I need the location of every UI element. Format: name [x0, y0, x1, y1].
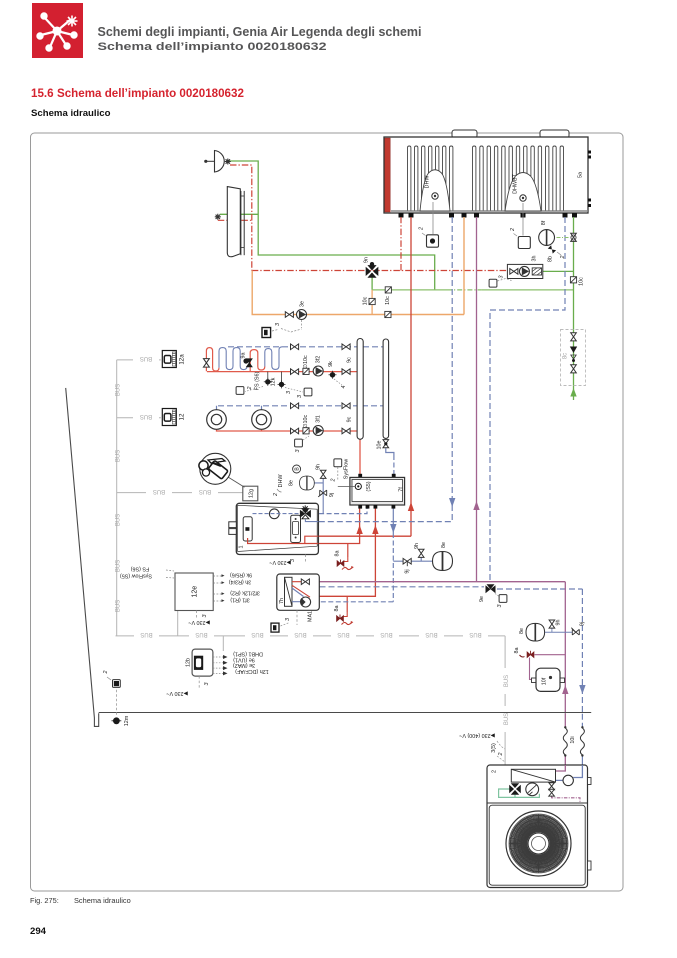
svg-text:BUS: BUS: [251, 631, 263, 637]
svg-text:SysFlow (S5): SysFlow (S5): [120, 573, 152, 579]
thermostat 12: [162, 409, 185, 426]
svg-text:Schema dell’impianto 002018063: Schema dell’impianto 0020180632: [98, 41, 327, 53]
diagram frame: [31, 133, 624, 891]
wire red dash-dot shower: [218, 165, 252, 271]
tank sensor cable DHWBT: [510, 203, 530, 249]
svg-text:BUS: BUS: [115, 450, 121, 462]
wire red 7f to 7h: [320, 506, 376, 596]
wall diagonal: [66, 388, 99, 727]
valve + pump 3e on orange line: [262, 301, 307, 338]
svg-text:9j: 9j: [329, 493, 335, 497]
svg-text:3h: 3h: [532, 256, 538, 262]
row2 valve 9c: [342, 416, 353, 433]
svg-text:3: 3: [275, 323, 281, 326]
wire purple hp hose lower: [564, 714, 566, 766]
svg-text:BUS: BUS: [504, 713, 510, 725]
floor line: [99, 712, 592, 714]
BUS drop to heat pump: [504, 636, 506, 765]
SysFlow callout: [338, 485, 355, 487]
wire red row1: [207, 371, 357, 373]
svg-text:12h (DCF/AF): 12h (DCF/AF): [235, 668, 269, 674]
valve 9j low: [571, 622, 585, 635]
controller 12g: [243, 486, 258, 501]
svg-text:BUS: BUS: [140, 355, 152, 361]
expansion vessel 8e low: [519, 620, 572, 642]
svg-text:9k (R5/6): 9k (R5/6): [230, 571, 252, 577]
svg-text:12k: 12k: [271, 377, 277, 386]
svg-text:7f: 7f: [399, 487, 405, 492]
svg-text:2: 2: [103, 671, 109, 675]
svg-text:BUS: BUS: [294, 631, 306, 637]
svg-text:3: 3: [499, 276, 505, 279]
wire green dash-dot: [447, 289, 481, 291]
svg-text:8b: 8b: [548, 256, 554, 262]
svg-text:9j: 9j: [580, 622, 586, 626]
svg-text:▶230 V~: ▶230 V~: [166, 690, 187, 696]
svg-text:12e: 12e: [192, 586, 199, 598]
wire blue capsule2 to 7f: [386, 448, 394, 455]
boiler internal dashed return: [253, 513, 300, 515]
controller 12b: [166, 649, 268, 696]
wire green drain outlet: [573, 386, 575, 401]
tank coil DHW: [408, 146, 453, 211]
svg-text:Fig. 275:: Fig. 275:: [30, 896, 59, 905]
12e callout labels: [120, 565, 260, 625]
svg-text:9k: 9k: [328, 361, 334, 367]
wire blue dashed 7h to 9e: [320, 586, 485, 588]
wire blue dashed row2: [217, 406, 384, 410]
svg-text:294: 294: [30, 926, 47, 937]
svg-text:BUS: BUS: [115, 600, 121, 612]
boiler unit 1: [229, 503, 319, 565]
svg-text:3: 3: [286, 391, 292, 394]
drain 8a lower: [334, 606, 353, 625]
svg-text:4: 4: [341, 386, 347, 389]
valve on green riser + check valve 8b: [548, 233, 577, 262]
hydraulic separator capsule 2: [383, 339, 389, 438]
filter group 8c dashed box: [561, 330, 586, 386]
svg-text:8e: 8e: [441, 542, 447, 548]
strainer 10c on green riser: [570, 277, 584, 286]
svg-text:BUS: BUS: [115, 384, 121, 396]
hp blue inlet to pump: [556, 765, 583, 780]
wire blue hp hose lower: [581, 714, 583, 728]
wire red dash-dot main: [252, 270, 509, 272]
row2 callout: [295, 436, 309, 453]
plate heat exchanger: [511, 769, 555, 782]
svg-text:▶230 V~: ▶230 V~: [269, 559, 290, 565]
strainer 10c on green feed: [385, 287, 391, 305]
tank sensor DHW: [432, 193, 438, 199]
strainer 10c on orange branch: [363, 296, 376, 305]
wire blue 7f stub4 down: [392, 506, 394, 533]
hp purple inlet: [556, 765, 566, 771]
svg-text:8a: 8a: [334, 606, 340, 612]
row1 valve: [291, 369, 299, 375]
svg-text:3: 3: [297, 395, 303, 398]
row1 strainer 10c: [303, 355, 309, 374]
wire blue dashed 9e to hp: [497, 589, 582, 714]
heating circuit 1 serpentine 9a: [203, 347, 282, 372]
BUS horizontal main: [116, 635, 506, 637]
BUS vertical trunk: [116, 360, 118, 636]
svg-text:BUS: BUS: [115, 560, 121, 572]
strainer on orange main: [385, 311, 391, 317]
wire red boiler loop to 7f: [248, 506, 360, 544]
shower fixture: [204, 151, 231, 173]
BUS branch 12: [117, 417, 161, 419]
sensor 12m outdoor: [103, 671, 130, 727]
svg-text:1: 1: [239, 546, 245, 549]
hp expansion valve: [549, 783, 555, 790]
row1 sensor 9k: [328, 361, 347, 389]
hp compressor: [526, 783, 539, 796]
svg-text:BUS: BUS: [337, 631, 349, 637]
sensor 9a: [241, 353, 253, 367]
svg-text:∅10c: ∅10c: [303, 415, 309, 429]
svg-text:Schema dell’impianto 002018063: Schema dell’impianto 0020180632: [57, 87, 244, 100]
magnifier detail circle: [199, 453, 245, 487]
svg-text:10e: 10e: [377, 441, 383, 450]
svg-text:2: 2: [273, 493, 279, 497]
expansion vessel 8f: [539, 220, 555, 245]
boiler fan star: [302, 505, 309, 512]
sensors FS S6 and 12k: [236, 372, 312, 398]
svg-text:10i: 10i: [570, 736, 576, 743]
svg-text:2: 2: [560, 256, 566, 260]
svg-text:BUS: BUS: [199, 488, 211, 494]
svg-text:2: 2: [419, 227, 425, 231]
pump group 3h: [489, 256, 543, 288]
svg-text:10f: 10f: [542, 677, 548, 685]
svg-text:3f1: 3f1: [316, 415, 322, 423]
svg-text:BUS: BUS: [195, 631, 207, 637]
svg-text:Schema idraulico: Schema idraulico: [74, 896, 131, 905]
svg-text:9j: 9j: [405, 569, 411, 573]
svg-text:9e (UV1): 9e (UV1): [233, 657, 255, 663]
svg-text:8f: 8f: [541, 220, 547, 225]
row1 return valves: [291, 344, 299, 350]
controller callout near 7h: [271, 618, 291, 632]
svg-text:3f1 (R1): 3f1 (R1): [230, 597, 250, 603]
BUS connector 12b: [222, 636, 224, 651]
svg-text:7h: 7h: [279, 598, 285, 604]
hose 10i flexible left: [563, 728, 567, 755]
mixer module 7h: [277, 574, 320, 625]
wire blue dashed boiler return from tank: [307, 217, 452, 522]
svg-text:3: 3: [285, 618, 291, 621]
svg-text:3h (R3/4): 3h (R3/4): [229, 578, 252, 584]
BUS branch 12g: [117, 492, 243, 494]
svg-text:8a: 8a: [335, 551, 341, 557]
svg-text:BUS: BUS: [469, 631, 481, 637]
thermostat 12a: [162, 351, 185, 368]
controller 12e: [175, 573, 213, 611]
wire red drain branch 8a: [347, 544, 349, 558]
svg-text:12b: 12b: [186, 658, 192, 667]
wire blue dashed boiler to 7f stub2: [297, 506, 367, 514]
wire purple tank drop: [476, 217, 478, 582]
svg-text:2: 2: [247, 387, 253, 391]
svg-text:10c: 10c: [363, 296, 369, 305]
svg-text:8c: 8c: [563, 353, 569, 359]
mixing valve 9n: [364, 257, 379, 278]
diverter valve 9e: [479, 584, 507, 607]
svg-text:BUS: BUS: [425, 631, 437, 637]
system sensor box 7f: [331, 459, 405, 509]
row2 pump 3f1: [313, 415, 323, 435]
hp 4-way valve: [509, 783, 521, 795]
wire red capsule1 to 7f: [359, 439, 361, 476]
svg-text:BUS: BUS: [380, 631, 392, 637]
hp teal pipes: [499, 789, 540, 797]
svg-text:DHWBT: DHWBT: [513, 173, 519, 193]
wire green shower supply: [228, 161, 435, 290]
wire green sink branch: [220, 213, 258, 215]
fill cluster 9j 9h 8e right: [403, 542, 452, 574]
hp pump: [563, 775, 573, 785]
svg-text:∅10c: ∅10c: [303, 355, 309, 369]
BUS connector 12e: [177, 611, 179, 636]
boiler supply cable: [305, 555, 307, 563]
sink fixture: [215, 187, 244, 257]
svg-text:BUS: BUS: [140, 631, 152, 637]
svg-text:9a: 9a: [241, 353, 247, 359]
wire green riser from tank: [573, 217, 575, 386]
svg-text:9h: 9h: [556, 620, 562, 626]
svg-text:DHB1 (SP1): DHB1 (SP1): [233, 651, 263, 657]
BUS branch 12a: [117, 359, 161, 361]
wire red tank to boiler: [305, 217, 411, 544]
wire green from 3h to riser: [543, 270, 574, 272]
svg-text:BUS: BUS: [504, 675, 510, 687]
svg-text:3f2: 3f2: [316, 356, 322, 364]
svg-text:Schema idraulico: Schema idraulico: [31, 108, 111, 119]
wire orange branch strainer: [371, 290, 373, 315]
svg-text:2: 2: [498, 753, 504, 757]
svg-text:9n: 9n: [364, 257, 370, 263]
svg-text:5a: 5a: [578, 172, 584, 178]
svg-text:(S5): (S5): [366, 481, 372, 491]
wire green cold feed: [372, 289, 573, 291]
svg-text:▶230 V~: ▶230 V~: [188, 619, 209, 625]
tank coil DHWBT: [473, 146, 564, 211]
wire blue fill cluster: [314, 474, 433, 561]
svg-text:9c: 9c: [347, 357, 353, 363]
tank bottom stubs: [399, 213, 578, 218]
tank sensor DHWBT: [520, 195, 526, 201]
svg-text:3e: 3e: [300, 301, 306, 307]
heat pump outdoor unit: [459, 732, 591, 888]
svg-text:3: 3: [202, 615, 208, 618]
svg-text:9c: 9c: [347, 416, 353, 422]
tank sensor cable DHW: [419, 202, 439, 247]
wire red dash-dot to tank: [400, 217, 402, 271]
valve 10e under capsule2: [377, 440, 389, 450]
wire blue dashed tank bypass: [490, 217, 565, 582]
svg-text:DHW: DHW: [425, 175, 431, 189]
hp fan: [506, 811, 571, 876]
row1 pump 3f2: [313, 356, 323, 376]
svg-text:3(5): 3(5): [491, 743, 497, 753]
svg-text:3e (MA2): 3e (MA2): [233, 662, 255, 668]
storage tank 5a: [384, 130, 588, 213]
svg-text:8a: 8a: [514, 648, 520, 654]
svg-text:SysFlow: SysFlow: [344, 459, 350, 479]
wire red row2: [217, 429, 358, 431]
svg-text:▶230 (400) V~: ▶230 (400) V~: [459, 732, 494, 738]
svg-text:10c: 10c: [385, 296, 391, 305]
drain 8a at 10f: [514, 648, 534, 658]
buffer vessel 10f: [532, 668, 565, 691]
svg-text:2: 2: [492, 770, 498, 773]
svg-text:15.6: 15.6: [31, 87, 54, 100]
wire red drain branch 8a lower: [346, 596, 348, 612]
svg-text:2: 2: [331, 479, 337, 483]
svg-text:BUS: BUS: [115, 514, 121, 526]
svg-text:12a: 12a: [179, 354, 186, 365]
svg-text:MA1: MA1: [308, 611, 314, 622]
svg-text:3: 3: [295, 450, 301, 453]
row2 valve: [291, 428, 299, 434]
svg-text:12: 12: [179, 413, 186, 420]
svg-text:3: 3: [497, 605, 503, 608]
svg-text:BUS: BUS: [140, 413, 152, 419]
svg-text:Schemi degli impianti, Genia A: Schemi degli impianti, Genia Air Legenda…: [98, 25, 422, 39]
svg-text:9h: 9h: [316, 464, 322, 470]
svg-text:BUS: BUS: [153, 488, 165, 494]
drain 8a upper: [335, 551, 354, 570]
row2 strainer 10c: [303, 415, 309, 434]
svg-text:12g: 12g: [248, 489, 254, 498]
boiler internal red flow: [248, 536, 319, 543]
svg-text:9e: 9e: [479, 596, 485, 602]
hp purple dashdot: [552, 796, 580, 803]
row1 valve 9c: [342, 357, 353, 375]
svg-text:DHW: DHW: [278, 474, 284, 488]
svg-text:8e: 8e: [289, 480, 295, 486]
wire blue dashed row1: [228, 346, 383, 348]
logo red square: [32, 3, 83, 58]
svg-text:8e: 8e: [519, 628, 525, 634]
hose 10i flexible right: [580, 728, 584, 755]
wire purple horizontal: [311, 582, 566, 714]
wire purple 10f branch: [530, 655, 566, 680]
svg-text:FS (S6): FS (S6): [131, 565, 150, 571]
svg-text:12m: 12m: [124, 715, 130, 726]
svg-text:10c: 10c: [579, 277, 585, 286]
wire orange: [252, 217, 464, 315]
DHW expansion cluster 8e: [273, 464, 335, 497]
tank side ticks: [588, 151, 591, 208]
svg-text:9h: 9h: [414, 543, 420, 549]
hydraulic separator capsule 1: [357, 339, 363, 440]
boiler 3-way valve: [300, 508, 311, 519]
svg-text:3f2/12k (R2): 3f2/12k (R2): [230, 590, 260, 596]
row2 return valves: [291, 403, 299, 409]
svg-text:3: 3: [204, 683, 210, 686]
heating circuit 2 manifold circles: [207, 410, 272, 430]
svg-text:2: 2: [510, 228, 516, 232]
